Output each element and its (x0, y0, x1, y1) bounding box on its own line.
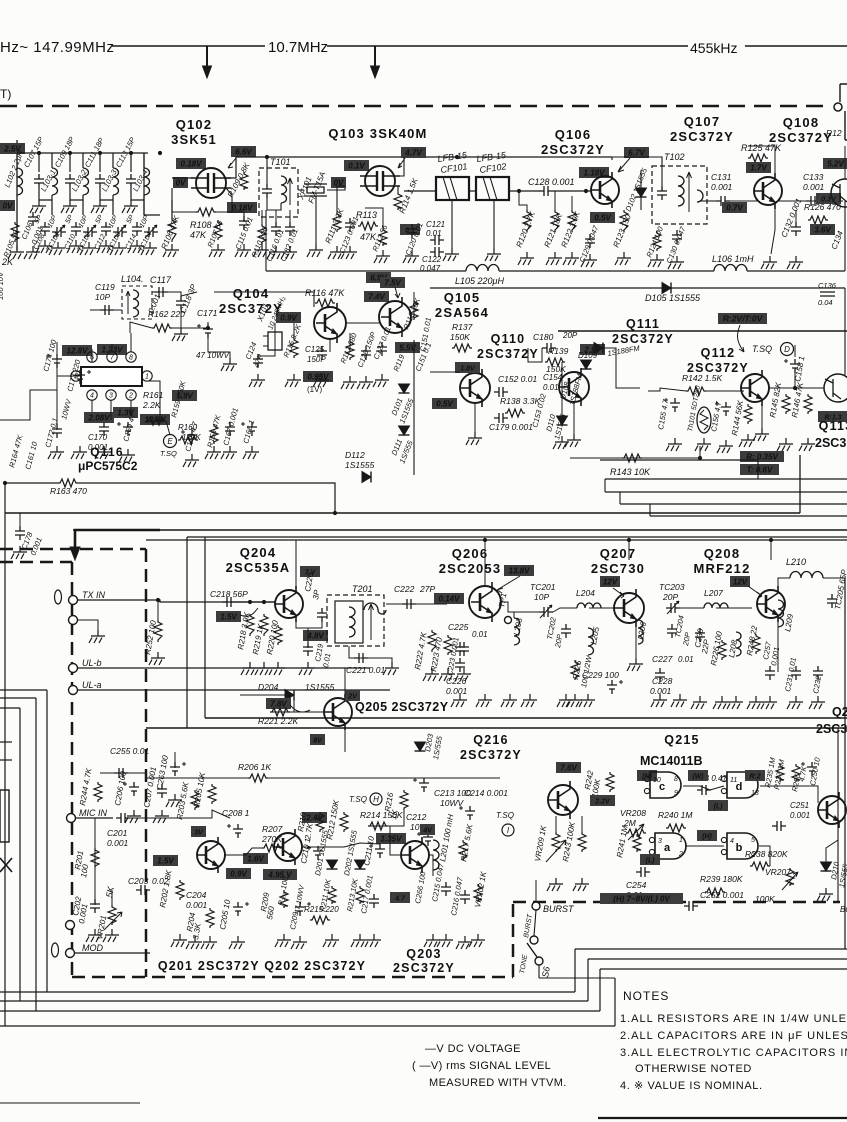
tone burst switch S6 (527, 943, 537, 957)
ground C169 (119, 449, 135, 462)
svg-text:TC201: TC201 (530, 582, 556, 592)
inductor L106 1mH (714, 265, 747, 271)
junction RF rail (37, 151, 162, 155)
wire Q102 source (226, 188, 232, 212)
voltage 1.5V Q201 (153, 855, 178, 866)
resistor R139res (545, 358, 565, 366)
wire C119 (90, 309, 122, 311)
svg-text:VR208: VR208 (620, 808, 646, 818)
resistor R110 (258, 224, 266, 244)
connector mark TX (55, 590, 62, 604)
resistor R243r (578, 832, 586, 852)
ground C108 (36, 240, 52, 253)
wire C263 top (174, 752, 176, 768)
bus line mid 537 (187, 536, 847, 538)
arrow 7.5V Q105 (395, 287, 400, 298)
voltage 0.9V Q104 (276, 312, 301, 323)
wire C133 out (779, 200, 843, 202)
svg-text:H: H (373, 795, 379, 804)
wire gate c to d (683, 786, 724, 790)
wire R121 top (554, 191, 556, 210)
arrow 6.7V Q106 (618, 158, 630, 172)
terminal UL-a (69, 686, 78, 695)
svg-text:OTHERWISE NOTED: OTHERWISE NOTED (635, 1063, 752, 1075)
svg-text:C226: C226 (446, 676, 467, 686)
capacitor C131 (716, 196, 730, 206)
voltage 1.18V Q106 base (579, 167, 609, 178)
svg-text:C131: C131 (711, 172, 732, 182)
terminal TX IN gnd (69, 616, 78, 625)
connector mark MOD (52, 943, 59, 957)
ground Q107 emitter (761, 256, 777, 269)
dashed TX border bottom right (513, 901, 840, 904)
transistor Q203 2SC372Y (401, 837, 429, 873)
voltage 7.5V Q105 (380, 277, 405, 288)
resistor R109 (240, 172, 248, 190)
bottom bus left 1011 (0, 1010, 600, 1012)
inductor L207 (704, 603, 728, 608)
transistor Q110 2SC372Y (460, 369, 490, 407)
svg-text:2: 2 (128, 393, 133, 400)
svg-text:R108: R108 (190, 220, 212, 230)
voltage 0.3V (816, 193, 841, 204)
svg-text:7.5V: 7.5V (384, 279, 401, 288)
resistor R143 (622, 454, 642, 462)
resistor R116 (315, 299, 335, 307)
svg-text:0.001: 0.001 (88, 443, 108, 452)
voltage 1.9V pin1 (172, 390, 197, 401)
svg-text:C225: C225 (448, 622, 469, 632)
transistor Q207 2SC730 (614, 589, 644, 627)
svg-text:—V DC VOLTAGE: —V DC VOLTAGE (425, 1043, 521, 1055)
pin 8 Q116 (126, 352, 136, 362)
bus line mid 513 (5, 512, 800, 514)
svg-text:C171: C171 (197, 308, 218, 318)
resistor R122 (568, 210, 576, 232)
svg-text:0.7V: 0.7V (726, 204, 743, 213)
resistor R138 (505, 409, 525, 417)
wire R143 line (570, 446, 700, 458)
svg-text:T.SQ: T.SQ (160, 449, 177, 458)
svg-text:T201: T201 (352, 584, 373, 594)
voltage 2.9V Q111 (580, 344, 605, 355)
wire XF101 ground (315, 196, 317, 244)
capacitor C110 (71, 222, 81, 236)
wire C128 to Q106 (553, 190, 592, 192)
wire pin3 stub (110, 400, 112, 420)
inductor L205 (588, 628, 594, 655)
capacitor C211c (369, 844, 385, 858)
svg-text:C170: C170 (88, 433, 108, 442)
svg-text:47K: 47K (190, 230, 207, 240)
vertical feeds TX mid (186, 537, 188, 728)
dashed TX border jog (512, 902, 515, 977)
signal flow arrow 2 (374, 46, 376, 68)
wire pin1 net (146, 381, 170, 435)
resistor R106 (168, 218, 176, 242)
wire R252 top (157, 600, 159, 620)
wire Q110 base (430, 371, 460, 373)
svg-text:2SC372Y: 2SC372Y (393, 961, 455, 975)
svg-text:0.5V: 0.5V (436, 400, 453, 409)
capacitor C251c (772, 821, 786, 831)
ground C125 (313, 374, 329, 387)
junction Q204 base (248, 600, 266, 604)
wire Q103 drain (395, 157, 404, 176)
potentiometer VR208r (626, 829, 646, 837)
bus lines receiver right (605, 478, 847, 480)
wire tank bottom L103-3 (100, 188, 113, 200)
wire Q102 drain to 6.6V rail (226, 157, 464, 178)
ground C231 (787, 696, 803, 709)
transistor Q217 (818, 792, 846, 828)
capacitor C170cap (99, 422, 109, 436)
wire Q203 out (429, 855, 433, 876)
voltage 0.9V Q201e (226, 868, 251, 879)
node D (781, 343, 794, 356)
voltage 12.8V IC (62, 345, 92, 356)
inductor L206 (638, 620, 643, 644)
svg-text:20P: 20P (662, 592, 678, 602)
svg-text:3SK51: 3SK51 (171, 132, 217, 147)
bus line TX top 540 (146, 539, 847, 541)
ground tank L103-3 (91, 200, 107, 213)
resistor R114 (394, 192, 402, 210)
terminal sub (66, 921, 75, 930)
wire Q205 collector (344, 680, 346, 698)
svg-text:4. ※ VALUE IS NOMINAL.: 4. ※ VALUE IS NOMINAL. (620, 1080, 763, 1092)
resistor R205r (208, 784, 216, 804)
label Q104 (219, 286, 283, 316)
ground R213 (351, 934, 367, 947)
pin 3 Q116 (106, 390, 116, 400)
svg-text:Bᴜ: Bᴜ (840, 905, 847, 914)
svg-text:100K: 100K (755, 894, 775, 904)
svg-text:MIC IN: MIC IN (79, 808, 107, 818)
junction 6.6V rail (265, 155, 459, 159)
ground C124 (249, 374, 265, 387)
label Q112 (687, 346, 749, 375)
resistor R120 (523, 210, 531, 232)
wire C182 stub (289, 210, 291, 222)
right edge vertical receiver (844, 201, 846, 271)
bottom bus right 949 (575, 948, 847, 950)
svg-text:13: 13 (751, 790, 759, 797)
transistor Q205 2SC372Y (324, 694, 352, 730)
resistor R221 (270, 708, 290, 716)
wire tank top L103-4 (130, 153, 132, 172)
svg-text:C221 0.01: C221 0.01 (346, 665, 385, 675)
ground tank L103-2 (61, 200, 77, 213)
wire C219 stub (307, 628, 309, 648)
capacitor C217c (369, 894, 379, 908)
supply arrow into TX block (75, 530, 160, 548)
ground C219 (299, 662, 315, 675)
svg-text:2SC372Y: 2SC372Y (460, 748, 522, 762)
ground R106 (163, 244, 179, 257)
svg-text:a: a (664, 842, 671, 854)
thermistor Th101 (697, 407, 711, 433)
wire TC201 L204 (553, 608, 577, 612)
resistor R112 (379, 228, 387, 246)
svg-text:D105 1S1555: D105 1S1555 (645, 293, 701, 303)
svg-text:L104.: L104. (121, 274, 144, 284)
voltage 0.18V gate1 Q102 (176, 158, 206, 169)
capacitor C220cap (317, 608, 327, 622)
ground L102 (8, 246, 24, 259)
connector circle top right (834, 103, 842, 111)
ground R223 (439, 668, 455, 681)
capacitor C127 (377, 342, 387, 356)
trimmer capacitor TC101 (52, 225, 66, 238)
capacitor C205c (233, 902, 249, 916)
wire TC203 L207 (680, 607, 704, 609)
capacitor C121 (430, 235, 444, 245)
capacitor C250c (801, 762, 817, 776)
wire XF101 to Q103 (327, 178, 345, 190)
ground D110 (553, 436, 569, 449)
ground Q111 (565, 434, 581, 447)
voltage 4V left (420, 824, 435, 835)
signal flow arrow 1 (206, 46, 208, 68)
bus line TX mid 728 (146, 727, 847, 729)
ground Q201 (186, 936, 202, 949)
voltage 6.9V rail (366, 272, 391, 283)
ground C223 (455, 668, 471, 681)
ground C112 (97, 240, 113, 253)
trimmer capacitor TC102 (83, 225, 97, 238)
wire S6 to bus (538, 965, 540, 978)
resistor R113 (358, 222, 378, 230)
ground Th101 (695, 438, 711, 451)
inductor L210 (790, 572, 823, 579)
voltage 0V Q102 (173, 177, 188, 188)
capacitor C210c (307, 846, 323, 860)
ground C215 (437, 934, 453, 947)
wire Q201 input (186, 810, 230, 818)
voltage 1.5V Q204 (216, 611, 241, 622)
wire R163 right (78, 483, 335, 513)
left feed stubs (0, 697, 36, 699)
ground R107 (209, 244, 225, 257)
ground R225 (566, 694, 582, 707)
capacitor C125cap (317, 346, 327, 360)
svg-text:6.6V: 6.6V (235, 148, 252, 157)
voltage 1.3V pin3 (113, 407, 138, 418)
svg-text:R240 1M: R240 1M (658, 810, 693, 820)
ground Q207 (direct) (627, 658, 643, 671)
wire L210 out (823, 577, 845, 579)
wire C131 to Q107 (730, 200, 757, 202)
svg-text:Q104: Q104 (233, 286, 270, 301)
capacitor C152 (494, 387, 508, 397)
svg-text:MEASURED WITH VTVM.: MEASURED WITH VTVM. (429, 1077, 567, 1089)
pin 1 Q116 (142, 371, 152, 381)
resistor R162 (152, 324, 172, 332)
label Q216 (460, 733, 522, 762)
svg-text:10P: 10P (95, 292, 110, 302)
wire C218 to Q204 (236, 601, 276, 603)
wire UL-a (77, 689, 390, 691)
dashed section border top (0, 105, 830, 108)
svg-text:C180: C180 (533, 332, 554, 342)
trimmer capacitor TC104 (144, 225, 158, 238)
wire tank to trimmer L103-2 (82, 200, 84, 215)
wire C118 bottom (180, 310, 182, 330)
arrow 6.6V (228, 158, 236, 168)
resistor R145 (782, 394, 790, 414)
transformer T102 dashed box (652, 166, 707, 224)
wire CF102 out (509, 190, 540, 192)
capacitor C155 (664, 398, 680, 412)
svg-text:1.5V: 1.5V (157, 857, 174, 866)
left feed verticals (4, 570, 6, 1026)
wire tank top L103-2 (69, 153, 71, 172)
resistor R201r (91, 848, 99, 868)
svg-text:Q108: Q108 (783, 115, 820, 130)
svg-text:0.18V: 0.18V (181, 160, 203, 169)
wire tank top L103-3 (99, 153, 101, 172)
svg-text:Q107: Q107 (684, 114, 721, 129)
wire 455kHz line right (745, 45, 847, 47)
ground L208 (727, 696, 743, 709)
svg-text:0.01: 0.01 (472, 630, 488, 639)
voltage 13.6V pin2 (140, 414, 170, 425)
svg-text:3.ALL ELECTROLYTIC CAPACITOR: 3.ALL ELECTROLYTIC CAPACITORS IN (620, 1047, 847, 1059)
ground R204 (201, 936, 217, 949)
ground R252 (149, 652, 165, 665)
bottom bus right 969 (600, 968, 847, 970)
voltage 0V Q103 (331, 177, 346, 188)
junction R252 (156, 598, 160, 602)
svg-text:(N): (N) (642, 774, 652, 781)
node H (370, 793, 382, 805)
resistor R158 (210, 424, 218, 444)
svg-text:C228: C228 (652, 676, 673, 686)
wire R120 top (519, 191, 527, 210)
logic level L gate a (640, 854, 660, 865)
wire coil top L103-3 (112, 153, 114, 168)
transistor Q204 2SC535A (275, 586, 303, 622)
inductor T101 primary (281, 176, 287, 203)
resistor R217r (459, 840, 467, 860)
resistor R207r (262, 844, 282, 852)
resistor R214r (368, 822, 388, 830)
ground C232 (809, 696, 825, 709)
ground VR202 (469, 934, 485, 947)
svg-text:UL-b: UL-b (82, 658, 102, 668)
arrow 12V Q207 (613, 588, 624, 598)
resistor R238r (750, 862, 770, 870)
voltage 3.6V (810, 224, 835, 235)
wire coil top L103-2 (82, 153, 84, 168)
wire Q103 gate2 (337, 186, 345, 212)
gate a MC14011B (649, 833, 686, 859)
voltage 2.4V Q202 (302, 812, 327, 823)
wire D110 net (561, 362, 563, 416)
svg-text:MOD: MOD (82, 943, 103, 953)
ground R120 (518, 252, 534, 265)
label Q116 (90, 445, 124, 459)
svg-text:4.8V: 4.8V (306, 632, 324, 641)
ground R145 (777, 438, 793, 451)
wire R125 top (748, 146, 775, 177)
svg-text:C212: C212 (406, 812, 427, 822)
svg-text:E: E (167, 437, 173, 446)
resistor R105 (11, 222, 19, 242)
resistor R222 (428, 630, 436, 652)
transformer T201 dashed box (327, 595, 384, 646)
svg-text:R138 3.3K: R138 3.3K (500, 396, 540, 406)
svg-text:C128 0.001: C128 0.001 (528, 177, 575, 187)
voltage 0.5V Q106 emitter (590, 212, 615, 223)
wire R162 to C171 (172, 322, 208, 328)
ground C116 (267, 246, 283, 259)
wire D109 out (603, 348, 640, 388)
voltage 6.6V Q102 drain (231, 146, 256, 157)
svg-text:2SC372Y: 2SC372Y (670, 129, 734, 144)
capacitor C227c (655, 668, 665, 682)
svg-text:R12: R12 (826, 128, 842, 138)
voltage 5.2V top right (823, 158, 847, 169)
wire Q202 out (302, 843, 380, 847)
ground VR209 (547, 878, 563, 891)
wire coil top L103-1 (51, 153, 53, 168)
ground R220 (269, 662, 285, 675)
arrow VR201 wiper (104, 912, 122, 930)
voltage H78V L0V (600, 893, 683, 904)
svg-text:8: 8 (129, 355, 133, 362)
svg-text:5.2V: 5.2V (827, 160, 844, 169)
capacitor C106 (28, 212, 38, 226)
voltage 0.1V Q103 src (400, 224, 420, 235)
resistor R206 (248, 774, 268, 782)
ground C132 (787, 256, 803, 269)
resistor R218 (246, 614, 254, 636)
svg-text:6.7V: 6.7V (628, 149, 645, 158)
terminal TX IN (69, 596, 78, 605)
capacitor C214c (459, 806, 475, 820)
resistor R117 (346, 340, 354, 360)
svg-text:12.8V: 12.8V (67, 347, 89, 356)
transistor Q112 2SC372Y (741, 370, 769, 406)
wire L209 down (777, 618, 779, 672)
svg-text:C254: C254 (626, 880, 647, 890)
svg-text:C227: C227 (652, 654, 673, 664)
capacitor T102 res (657, 186, 667, 200)
wire Q216 emitter (555, 816, 557, 832)
svg-text:R139: R139 (548, 346, 569, 356)
voltage 0.7V Q107 base (722, 202, 747, 213)
capacitor C202c (90, 899, 100, 913)
ground CF102 (485, 248, 501, 261)
label Q102 (171, 117, 217, 147)
wire coil top L103-4 (143, 153, 145, 168)
wire C180 R139 loop (528, 348, 542, 362)
svg-text:R143 10K: R143 10K (610, 467, 651, 477)
diode D112 (362, 472, 371, 483)
capacitor TC204c (667, 624, 677, 638)
ground R123 (615, 252, 631, 265)
wire pin8 stub (130, 333, 132, 352)
wire mic divider (94, 818, 96, 905)
svg-text:C121: C121 (426, 220, 445, 229)
svg-text:4.7: 4.7 (394, 896, 406, 903)
wire VR201 stub (111, 890, 113, 905)
voltage 12V Q208 (730, 576, 750, 587)
voltage 0.1V Q103 gate (344, 160, 369, 171)
capacitor C215c (441, 882, 451, 896)
